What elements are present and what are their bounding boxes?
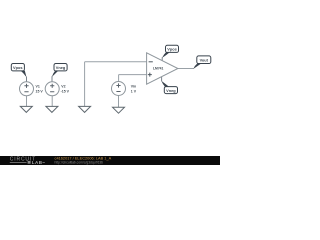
svg-text:Vout: Vout	[200, 58, 209, 63]
svg-text:V1: V1	[36, 85, 40, 89]
svg-text:Vneg: Vneg	[166, 88, 176, 93]
svg-text:LM741: LM741	[153, 67, 163, 71]
svg-text:LAB: LAB	[32, 160, 43, 165]
svg-text:15 V: 15 V	[36, 90, 44, 94]
svg-text:-15 V: -15 V	[61, 90, 70, 94]
svg-text:Vneg: Vneg	[56, 65, 66, 70]
svg-text:Vpos: Vpos	[167, 47, 177, 52]
svg-text:Vin: Vin	[131, 84, 136, 88]
svg-text:http://circuitlab.com/c/g3dqu7: http://circuitlab.com/c/g3dqu7636	[55, 161, 104, 165]
svg-text:Vpos: Vpos	[13, 65, 23, 70]
svg-text:V2: V2	[61, 85, 65, 89]
svg-text:1 V: 1 V	[131, 89, 137, 93]
